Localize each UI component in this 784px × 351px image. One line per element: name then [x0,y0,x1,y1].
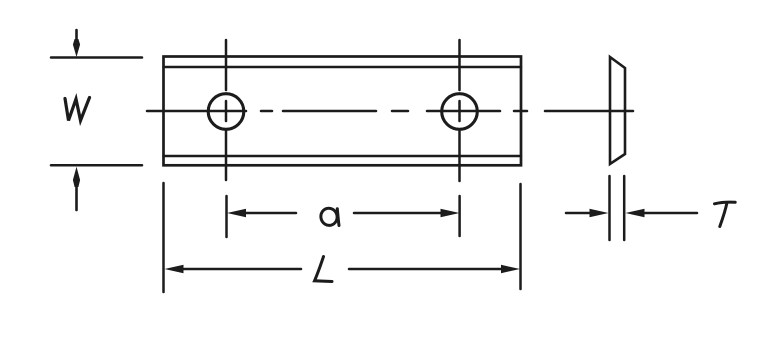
L dimension line right segment with arrow [349,265,520,273]
side view (thickness profile, parallelogram) [610,57,625,164]
T dimension left extension line [608,176,611,240]
label T [715,202,736,226]
a dimension right extension line [458,196,461,236]
W dimension bottom extension line [51,164,142,167]
a dimension left extension line [225,196,228,237]
hole 1 (left mounting hole) [208,94,244,130]
hole 2 (right mounting hole) [442,94,478,130]
W bottom arrow [73,167,80,210]
knife body outer rectangle (front view) [164,57,522,166]
vertical centerline hole 2 [458,40,461,181]
W top arrow [73,30,80,57]
T dimension right arrow segment [626,209,698,217]
L dimension line left segment with arrow [165,265,302,273]
a dimension line left segment with arrow [227,209,296,217]
label W [65,98,90,121]
horizontal centerline [147,110,633,113]
label a [319,206,339,227]
W dimension top extension line [51,56,142,59]
L dimension right extension line [519,184,522,289]
knife body inner bottom bevel line [164,155,522,158]
knife body inner top bevel line [164,66,522,69]
vertical centerline hole 1 [225,40,228,180]
label L [315,257,333,282]
a dimension line right segment with arrow [354,209,460,217]
L dimension left extension line [162,183,165,292]
T dimension left arrow segment [566,209,609,217]
T dimension right extension line [623,176,626,240]
